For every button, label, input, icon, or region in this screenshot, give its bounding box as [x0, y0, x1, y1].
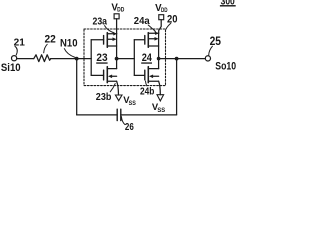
wire: node N10 down to bottom rail [76, 59, 78, 115]
svg-text:Si10: Si10 [1, 62, 21, 74]
inverter 24 gate bus [133, 40, 135, 76]
inverter 23 gate bus [90, 40, 92, 76]
dashed box 20 (buffer block) [84, 29, 166, 86]
svg-text:SS: SS [157, 107, 165, 114]
transistor 23b (NMOS) [91, 67, 116, 83]
svg-text:So10: So10 [215, 61, 236, 73]
label 24 with underline [141, 52, 152, 64]
leader N10 [64, 49, 75, 58]
capacitor 26 [116, 109, 118, 120]
svg-text:DD: DD [117, 6, 124, 13]
leader 20 [166, 23, 171, 29]
figure number 300 [220, 0, 236, 8]
bottom rail left segment [77, 114, 118, 116]
svg-text:DD: DD [161, 7, 168, 14]
output wire to terminal 25 [159, 58, 206, 60]
label 23 with underline [96, 52, 107, 64]
wire: inverter 23 output to inverter 24 input [117, 58, 135, 60]
node N10 junction dot [75, 57, 79, 61]
leader 23a with arrowhead [105, 26, 113, 33]
resistor 22 [34, 55, 51, 62]
svg-text:22: 22 [45, 34, 56, 46]
transistor 24a (PMOS) [134, 33, 158, 48]
leader 24a with arrowhead [148, 25, 155, 31]
inverter 23 drain bus [116, 34, 118, 69]
svg-text:N10: N10 [60, 37, 78, 49]
leader 24b [146, 81, 147, 86]
VSS symbol 1 (open triangle) [115, 95, 122, 101]
svg-text:SS: SS [129, 100, 137, 107]
svg-text:25: 25 [210, 34, 222, 48]
svg-text:24: 24 [142, 52, 153, 64]
bottom rail right segment [121, 114, 177, 116]
wire: bottom rail up to output [176, 59, 178, 115]
junction dot (inverter 24 output) [157, 57, 161, 61]
VDD port 2 [155, 3, 168, 33]
svg-text:300: 300 [221, 0, 236, 8]
leader 25 [209, 46, 213, 55]
svg-text:23: 23 [96, 52, 107, 64]
VSS lead 1 [117, 81, 119, 95]
leader 26 [121, 117, 125, 125]
leader 23b [110, 84, 115, 92]
inverter 24 drain bus [158, 33, 160, 68]
VSS lead 2 [159, 81, 161, 95]
terminal 25 (output pad circle) [205, 56, 210, 61]
svg-text:24a: 24a [134, 16, 150, 27]
VDD port 1 [111, 3, 124, 34]
leader 22 [44, 44, 48, 53]
wire: resistor to node N10 and gate bus of inverter 23 [51, 58, 91, 60]
svg-text:23b: 23b [96, 92, 112, 103]
terminal 21 (input pad circle) [12, 56, 17, 61]
svg-text:20: 20 [167, 13, 178, 25]
svg-text:26: 26 [125, 122, 134, 132]
wire: terminal 21 to resistor 22 [17, 58, 34, 60]
VSS symbol 2 (open triangle) [157, 95, 164, 101]
junction dot (inverter 23 output) [115, 57, 119, 61]
transistor 23a (PMOS) [91, 33, 116, 48]
svg-text:24b: 24b [140, 85, 154, 97]
junction dot (capacitor tap) [175, 57, 179, 61]
transistor 24b (NMOS) [134, 67, 158, 83]
leader 21 [15, 46, 17, 55]
